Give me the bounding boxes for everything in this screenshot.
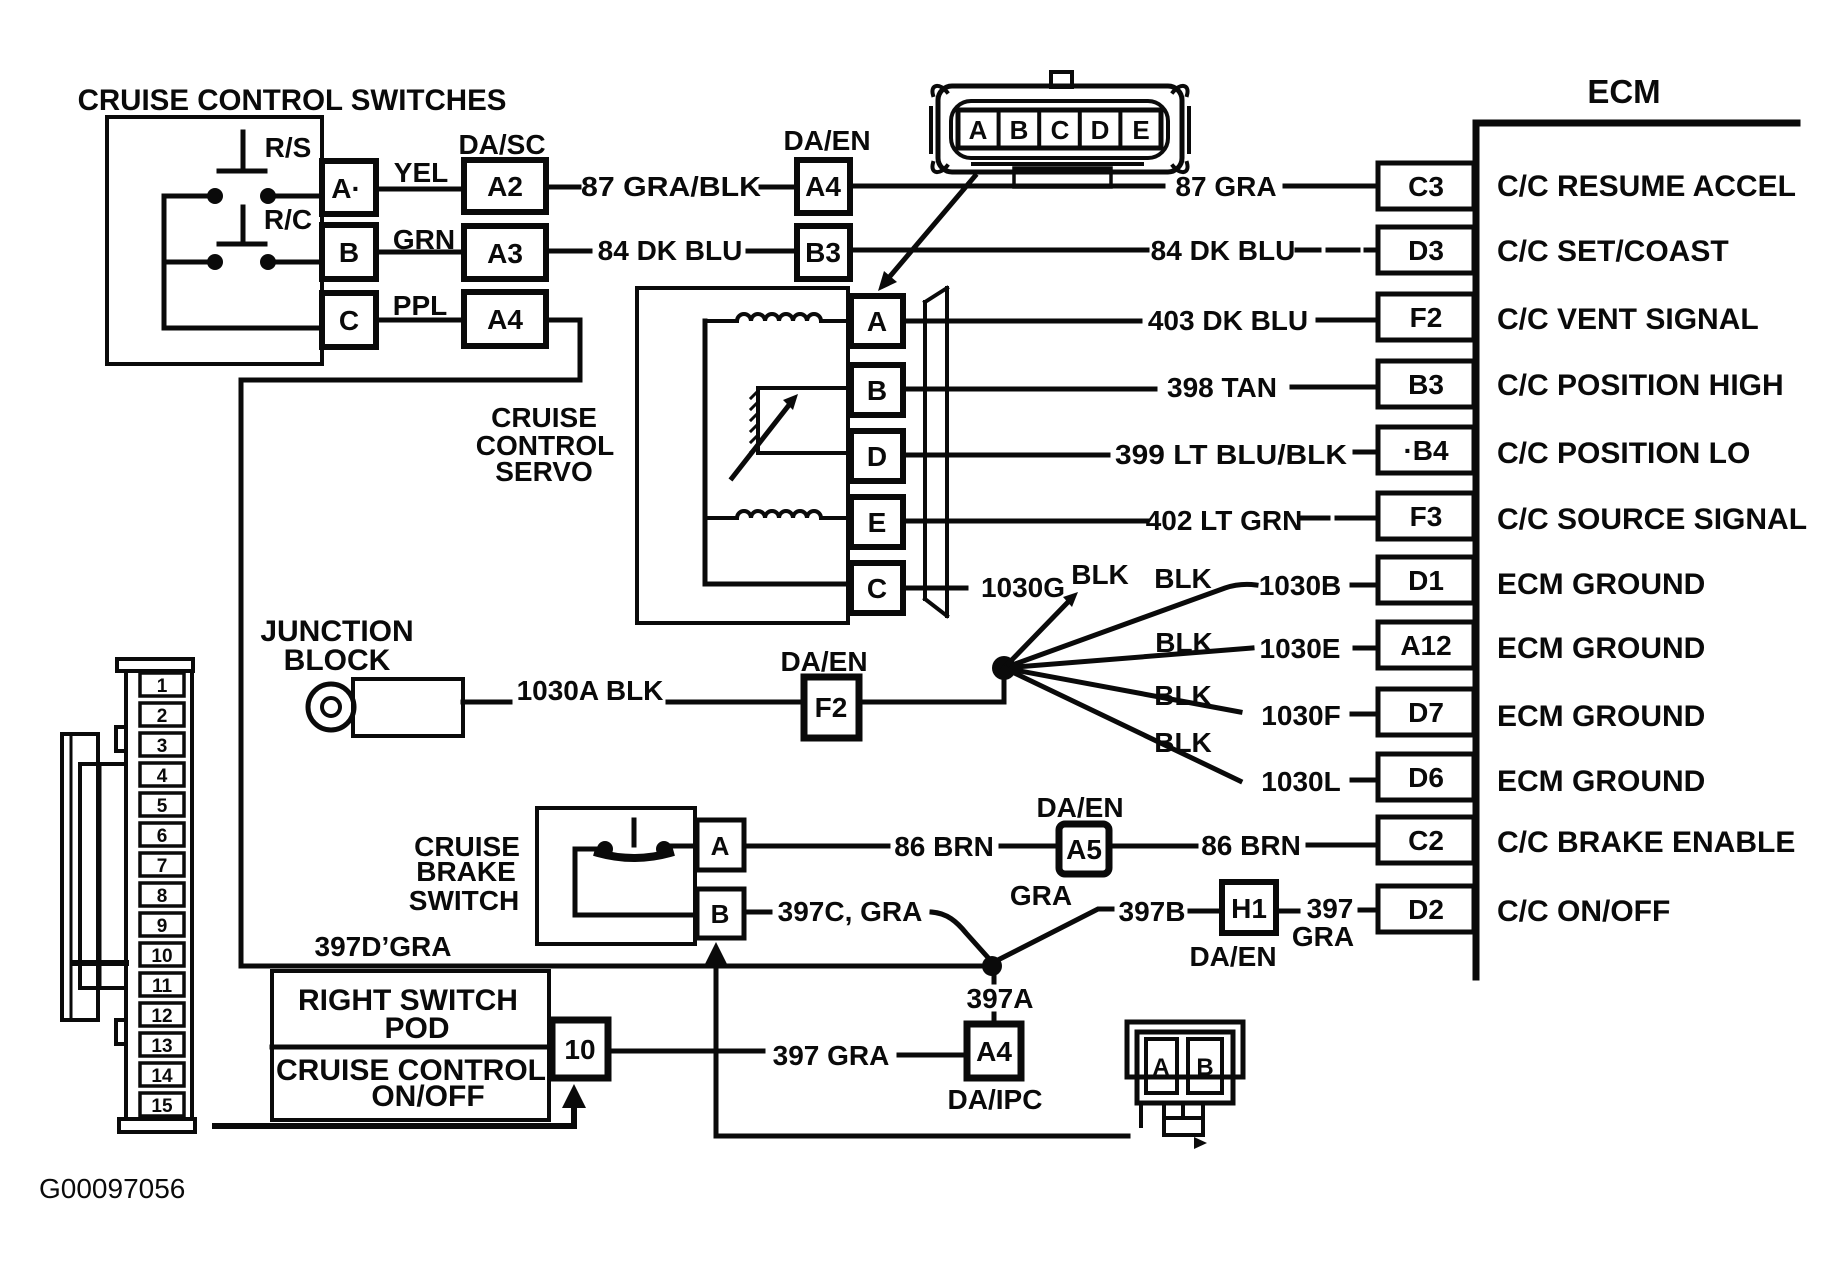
connector A5 DA/EN <box>1059 824 1109 874</box>
pin 13 <box>140 1033 184 1057</box>
svg-text:ECM GROUND: ECM GROUND <box>1497 700 1705 733</box>
potentiometer wiper arrow <box>732 405 789 478</box>
svg-text:H1: H1 <box>1231 893 1267 924</box>
coil L1 (vent solenoid) <box>705 314 851 321</box>
ECM pin F3 <box>1378 493 1474 539</box>
svg-text:D7: D7 <box>1408 697 1444 728</box>
svg-text:A: A <box>711 831 730 861</box>
svg-text:87 GRA/BLK: 87 GRA/BLK <box>581 171 761 202</box>
svg-text:BLK: BLK <box>1071 559 1129 590</box>
svg-text:397: 397 <box>1307 893 1354 924</box>
label RIGHT SWITCH POD <box>298 984 518 1045</box>
coil L2 (vacuum solenoid) <box>705 511 851 518</box>
svg-text:YEL: YEL <box>394 157 448 188</box>
svg-text:C: C <box>1051 115 1070 145</box>
wire 397C GRA from pin B <box>744 910 770 915</box>
svg-text:D6: D6 <box>1408 762 1444 793</box>
svg-text:403 DK BLU: 403 DK BLU <box>1148 305 1308 336</box>
brake switch pin B <box>697 889 744 938</box>
svg-text:6: 6 <box>157 826 168 847</box>
connector A4 DA/EN top <box>797 160 850 213</box>
junction block ring terminal <box>308 684 354 730</box>
wire 86 BRN to A5 <box>744 844 1059 849</box>
svg-text:A4: A4 <box>976 1036 1012 1067</box>
svg-text:1030G: 1030G <box>981 572 1065 603</box>
arrow up to brake switch pin B <box>703 942 729 968</box>
svg-text:BLK: BLK <box>1154 563 1212 594</box>
wire splice to 1030E / A12 <box>1004 648 1378 668</box>
svg-text:E: E <box>1132 115 1149 145</box>
svg-text:D: D <box>867 441 887 472</box>
servo harness bracket <box>925 288 947 616</box>
svg-text:SWITCH: SWITCH <box>409 885 519 916</box>
brake switch contact bar <box>598 853 670 858</box>
svg-text:DA/SC: DA/SC <box>458 129 545 160</box>
ECM outline <box>1476 123 1797 977</box>
pin 5 <box>140 793 184 817</box>
svg-text:C/C POSITION LO: C/C POSITION LO <box>1497 437 1750 470</box>
svg-text:399 LT BLU/BLK: 399 LT BLU/BLK <box>1115 439 1347 470</box>
svg-text:1030F: 1030F <box>1261 700 1340 731</box>
ground splice junction dot <box>992 656 1016 680</box>
svg-text:GRA: GRA <box>1010 880 1072 911</box>
ECM pin C3 <box>1378 163 1474 209</box>
wire down from arrow to bottom connector <box>716 968 1128 1136</box>
label CRUISE CONTROL SERVO <box>476 402 614 487</box>
svg-text:A5: A5 <box>1066 834 1102 865</box>
svg-text:402 LT GRN: 402 LT GRN <box>1146 505 1303 536</box>
wire 397 GRA to D2 <box>1276 910 1378 911</box>
svg-text:C/C BRAKE ENABLE: C/C BRAKE ENABLE <box>1497 826 1795 859</box>
ECM pin D2 <box>1378 886 1474 932</box>
svg-text:B: B <box>339 237 359 268</box>
wire splice to 1030F / D7 <box>1004 668 1378 714</box>
right switch pod box <box>272 971 549 1120</box>
potentiometer (position sensor) element <box>758 388 851 453</box>
pin C of cruise switches <box>322 293 376 347</box>
svg-text:A4: A4 <box>805 171 841 202</box>
svg-text:C/C POSITION HIGH: C/C POSITION HIGH <box>1497 369 1784 402</box>
svg-text:GRA: GRA <box>1292 921 1354 952</box>
svg-text:BLOCK: BLOCK <box>284 644 391 677</box>
svg-text:C: C <box>339 305 359 336</box>
wire 398 TAN to B3 <box>903 387 1378 389</box>
pin A of cruise switches <box>322 161 376 214</box>
ECM pin A12 <box>1378 622 1474 668</box>
svg-text:397D’GRA: 397D’GRA <box>315 931 452 962</box>
svg-text:C/C VENT SIGNAL: C/C VENT SIGNAL <box>1497 303 1759 336</box>
svg-text:C/C SOURCE SIGNAL: C/C SOURCE SIGNAL <box>1497 503 1807 536</box>
svg-text:1030E: 1030E <box>1260 633 1341 664</box>
svg-text:1: 1 <box>157 676 168 697</box>
svg-text:A2: A2 <box>487 171 523 202</box>
svg-text:C: C <box>867 573 887 604</box>
label CRUISE CONTROL ON/OFF <box>276 1054 546 1113</box>
switch R/C plunger <box>219 207 265 244</box>
svg-text:CRUISE: CRUISE <box>491 402 597 433</box>
svg-text:CRUISE CONTROL SWITCHES: CRUISE CONTROL SWITCHES <box>78 84 507 117</box>
svg-text:A3: A3 <box>487 238 523 269</box>
brake switch contact dots <box>597 841 613 857</box>
svg-text:R/S: R/S <box>265 132 312 163</box>
servo pin B <box>851 365 903 415</box>
wire 397A from splice to A4 <box>992 974 997 1024</box>
servo pin D <box>851 431 903 481</box>
brake switch plunger <box>632 820 637 845</box>
wire 397D GRA horizontal <box>241 964 986 969</box>
ECM pin D3 <box>1378 227 1474 273</box>
wire 399 LT BLU/BLK to B4 <box>903 452 1378 455</box>
svg-text:DA/EN: DA/EN <box>783 125 870 156</box>
wire row B inside switch box <box>164 260 322 265</box>
svg-text:9: 9 <box>157 916 168 937</box>
wire bottom stub to arrow <box>215 1108 574 1126</box>
pin 11 <box>140 973 184 997</box>
servo inner frame <box>703 321 708 584</box>
svg-text:8: 8 <box>157 886 168 907</box>
svg-text:397B: 397B <box>1119 896 1186 927</box>
cruise brake switch box <box>537 808 695 944</box>
wire row A inside switch box <box>164 194 322 199</box>
servo pin E <box>851 497 903 547</box>
svg-text:G00097056: G00097056 <box>39 1173 185 1204</box>
svg-text:10: 10 <box>151 946 172 967</box>
connector H1 DA/EN <box>1222 882 1276 933</box>
pin 2 <box>140 703 184 727</box>
svg-text:R/C: R/C <box>264 204 312 235</box>
svg-text:B: B <box>1196 1054 1213 1081</box>
splice junction dot 397 <box>982 956 1002 976</box>
svg-text:DA/EN: DA/EN <box>1036 792 1123 823</box>
svg-text:C2: C2 <box>1408 825 1444 856</box>
pin 15 <box>140 1093 184 1117</box>
wire GRN B to A3 <box>376 250 464 255</box>
svg-text:DA/IPC: DA/IPC <box>948 1084 1043 1115</box>
svg-text:4: 4 <box>157 766 168 787</box>
svg-text:C/C ON/OFF: C/C ON/OFF <box>1497 895 1670 928</box>
switch R/S contact dots <box>207 188 223 204</box>
svg-text:ECM GROUND: ECM GROUND <box>1497 568 1705 601</box>
svg-text:DA/EN: DA/EN <box>780 646 867 677</box>
connector A4 DA/IPC <box>967 1024 1021 1078</box>
svg-text:D2: D2 <box>1408 894 1444 925</box>
svg-text:13: 13 <box>151 1036 172 1057</box>
label CRUISE BRAKE SWITCH <box>409 831 520 916</box>
pin B of cruise switches <box>322 225 376 279</box>
svg-text:ECM: ECM <box>1587 73 1660 110</box>
wire 1030G from servo pin C <box>903 586 966 591</box>
svg-text:ECM GROUND: ECM GROUND <box>1497 765 1705 798</box>
svg-text:84 DK BLU: 84 DK BLU <box>598 235 743 266</box>
svg-text:1030L: 1030L <box>1261 766 1340 797</box>
svg-text:B3: B3 <box>1408 369 1444 400</box>
connector icon 5-way (servo connector face view) <box>931 72 1189 187</box>
svg-text:14: 14 <box>151 1066 173 1087</box>
svg-text:87 GRA: 87 GRA <box>1175 171 1276 202</box>
pin 4 <box>140 763 184 787</box>
label JUNCTION BLOCK <box>260 615 413 677</box>
arrow up to pin 10 <box>562 1084 586 1108</box>
pin 8 <box>140 883 184 907</box>
wire 403 DK BLU to F2 <box>903 320 1378 321</box>
ECM pin B4 <box>1378 427 1474 473</box>
svg-text:C/C SET/COAST: C/C SET/COAST <box>1497 235 1729 268</box>
svg-text:F3: F3 <box>1410 501 1443 532</box>
servo pin A <box>851 296 903 346</box>
switch R/S plunger <box>219 132 265 171</box>
svg-text:398 TAN: 398 TAN <box>1167 372 1277 403</box>
svg-text:PPL: PPL <box>393 290 447 321</box>
svg-text:B: B <box>711 899 730 929</box>
wire 397C diagonal to splice <box>932 912 992 962</box>
ECM pin F2 <box>1378 294 1474 340</box>
svg-text:ON/OFF: ON/OFF <box>371 1080 484 1113</box>
svg-text:BRAKE: BRAKE <box>416 856 516 887</box>
brake switch pin A <box>697 820 744 870</box>
ECM pin B3 <box>1378 361 1474 407</box>
pin 1 <box>140 673 184 697</box>
wire splice to 1030B / D1 <box>1004 584 1378 668</box>
svg-text:F2: F2 <box>815 692 848 723</box>
pin 7 <box>140 853 184 877</box>
pin 3 <box>140 733 184 757</box>
pod divider <box>272 1045 549 1050</box>
svg-text:·B4: ·B4 <box>1403 435 1449 466</box>
bottom 2-way connector A/B <box>1127 1022 1243 1149</box>
svg-text:BLK: BLK <box>1154 680 1212 711</box>
pin 6 <box>140 823 184 847</box>
wire 87 GRA/BLK segments <box>546 185 797 190</box>
svg-text:1030A BLK: 1030A BLK <box>517 675 664 706</box>
svg-text:SERVO: SERVO <box>495 456 593 487</box>
wire 397 GRA from pin 10 to A4 <box>608 1051 967 1055</box>
ECM pin D6 <box>1378 754 1474 800</box>
svg-text:C3: C3 <box>1408 171 1444 202</box>
svg-text:B: B <box>1010 115 1029 145</box>
svg-text:2: 2 <box>157 706 168 727</box>
svg-text:11: 11 <box>152 976 173 997</box>
svg-text:3: 3 <box>157 736 168 757</box>
pin 14 <box>140 1063 184 1087</box>
wire 87 GRA to C3 <box>850 184 1378 189</box>
wire splice down to junction block line <box>859 668 1004 702</box>
svg-text:C/C RESUME ACCEL: C/C RESUME ACCEL <box>1497 170 1796 203</box>
wire 86 BRN to C2 <box>1109 845 1378 846</box>
wire 1030A BLK to F2 <box>463 700 804 705</box>
svg-text:BLK: BLK <box>1154 727 1212 758</box>
svg-text:12: 12 <box>151 1006 172 1027</box>
svg-text:15: 15 <box>151 1096 173 1117</box>
wire 84 DK BLU segments <box>546 249 797 254</box>
pin 10 <box>140 943 184 967</box>
svg-text:D3: D3 <box>1408 235 1444 266</box>
pin 9 <box>140 913 184 937</box>
pin 12 <box>140 1003 184 1027</box>
svg-text:A: A <box>1152 1054 1169 1081</box>
svg-text:A4: A4 <box>487 304 523 335</box>
arrow from 5-way connector to servo pins <box>886 176 975 281</box>
wire from A4 down and left to long vertical <box>241 320 580 966</box>
svg-text:A·: A· <box>331 173 361 204</box>
svg-text:F2: F2 <box>1410 302 1443 333</box>
wire 402 LT GRN to F3 <box>903 518 1378 521</box>
svg-text:D1: D1 <box>1408 565 1444 596</box>
svg-text:B: B <box>867 375 887 406</box>
ECM pin C2 <box>1378 817 1474 863</box>
svg-text:1030B: 1030B <box>1259 570 1342 601</box>
svg-text:BLK: BLK <box>1155 627 1213 658</box>
svg-text:ECM GROUND: ECM GROUND <box>1497 632 1705 665</box>
pin row A B C D E of 5-way connector <box>958 110 1161 148</box>
wire PPL C to A4 <box>376 318 464 323</box>
svg-text:A: A <box>969 115 988 145</box>
wire splice to 1030G arrow <box>1004 602 1068 668</box>
wire YEL A to A2 <box>376 187 464 192</box>
svg-text:A: A <box>867 306 887 337</box>
connector A3 DA/SC <box>464 226 546 279</box>
connector A4 DA/SC <box>464 292 546 346</box>
wire left vertical in switch box <box>162 196 167 328</box>
wire splice to 1030L / D6 <box>1004 668 1378 781</box>
svg-text:7: 7 <box>157 856 168 877</box>
svg-text:D: D <box>1091 115 1110 145</box>
svg-text:DA/EN: DA/EN <box>1189 941 1276 972</box>
connector F2 DA/EN <box>804 677 859 738</box>
wire bottom to pin C <box>164 326 322 331</box>
servo pin C <box>851 563 903 613</box>
connector A2 DA/SC <box>464 160 546 212</box>
brake switch internal wires <box>575 846 697 915</box>
cruise control servo box <box>637 288 848 623</box>
wire servo bottom to pin C <box>705 582 851 587</box>
ECM pin D1 <box>1378 557 1474 603</box>
wire 397B to H1 <box>1190 909 1222 914</box>
svg-text:86 BRN: 86 BRN <box>894 831 994 862</box>
svg-text:E: E <box>868 507 887 538</box>
ECM pin D7 <box>1378 689 1474 735</box>
switch R/C contact dots <box>207 254 223 270</box>
svg-text:GRN: GRN <box>393 224 455 255</box>
svg-text:5: 5 <box>157 796 168 817</box>
wire 84 DK BLU to D3 <box>850 248 1378 253</box>
svg-text:B3: B3 <box>805 237 841 268</box>
svg-text:397A: 397A <box>967 983 1034 1014</box>
svg-text:84 DK BLU: 84 DK BLU <box>1151 235 1296 266</box>
pin 10 of right switch pod <box>552 1020 608 1078</box>
15-pin connector body <box>116 659 195 1132</box>
svg-text:POD: POD <box>384 1012 449 1045</box>
connector B3 DA/EN top <box>797 226 850 279</box>
svg-text:397 GRA: 397 GRA <box>773 1040 890 1071</box>
cruise control switches box <box>107 117 322 364</box>
svg-text:397C, GRA: 397C, GRA <box>778 896 923 927</box>
15-pin connector mounting bracket <box>62 734 126 1020</box>
wire splice up to 397B <box>992 909 1112 963</box>
svg-text:86 BRN: 86 BRN <box>1201 830 1301 861</box>
svg-text:10: 10 <box>564 1034 595 1065</box>
svg-text:A12: A12 <box>1400 630 1451 661</box>
